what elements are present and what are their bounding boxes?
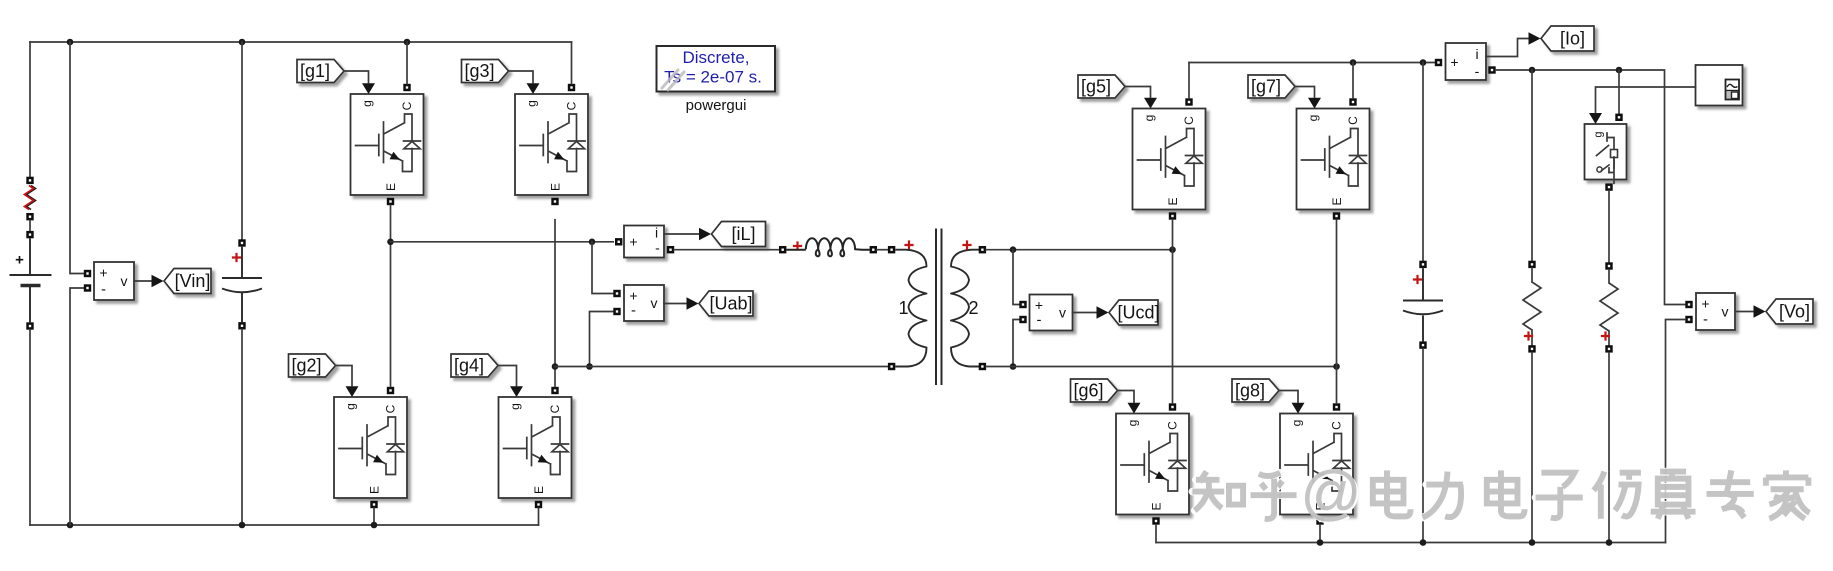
wire E2 to bottom bus <box>373 508 375 525</box>
capacitor Cin top port <box>238 239 245 246</box>
resistor R1 top port <box>1528 261 1535 268</box>
wire to Vin - port <box>70 288 84 525</box>
IGBT U8 (g8) <box>1280 403 1353 525</box>
svg-text:2: 2 <box>968 298 978 318</box>
svg-text:[g7]: [g7] <box>1251 76 1281 96</box>
wire bus to Cin <box>241 42 243 239</box>
svg-text:[g1]: [g1] <box>300 61 330 81</box>
IGBT U1 (g1) <box>351 83 424 205</box>
goto tag [Uab] <box>699 291 753 316</box>
wire Uab - to node B <box>590 312 614 367</box>
arrowhead to [Ucd] <box>1097 306 1109 318</box>
transformer T1 winding 1 <box>895 250 926 367</box>
voltage measurement Vo <box>1696 293 1735 330</box>
polarity + (Cin) <box>232 253 241 262</box>
svg-text:[g6]: [g6] <box>1073 380 1103 400</box>
wire top bus (right bridge) <box>1189 62 1435 64</box>
wire E4 to bottom bus <box>538 508 540 525</box>
wire g5 gate <box>1125 87 1151 98</box>
wire top bus (left bridge) <box>30 41 572 43</box>
IGBT U4 (g4) <box>499 386 572 508</box>
wire node B to transformer <box>555 366 888 368</box>
inductor L1 <box>786 238 869 256</box>
wire R2 to bottom bus <box>1608 353 1610 543</box>
goto tag [iL] <box>712 222 766 247</box>
svg-text:v: v <box>1722 304 1729 320</box>
junction R2 bottom <box>1606 539 1613 546</box>
wire bus to C7 <box>1352 63 1354 99</box>
svg-text:v: v <box>651 295 658 311</box>
wire bottom bus (left bridge) <box>30 524 539 526</box>
resistor Rs bottom port <box>26 213 33 220</box>
IGBT U2 (g2) <box>334 386 407 508</box>
powergui block <box>657 46 776 114</box>
wire iL- to inductor <box>674 249 779 251</box>
node Rs top port <box>26 177 33 184</box>
junction Cin bottom <box>239 522 246 529</box>
wire R1 stubs <box>1531 268 1533 345</box>
signal builder block <box>1696 65 1743 106</box>
wire bus to C3 <box>571 42 573 84</box>
wire leg A (E1-C2) <box>390 205 392 386</box>
voltage measurement Vin <box>94 262 134 300</box>
transformer T1 winding2 - port <box>979 363 986 370</box>
junction C7 tap <box>1350 59 1357 66</box>
polarity + (T1 winding 2) <box>962 240 971 249</box>
wire R2 stubs <box>1608 270 1610 346</box>
wire E8 to bottom bus <box>1319 525 1321 543</box>
wire g6 gate <box>1118 391 1135 403</box>
resistor R1 bottom port <box>1528 345 1535 352</box>
wire R1 to bottom bus <box>1531 353 1533 543</box>
svg-text:1: 1 <box>898 298 908 318</box>
IGBT U6 (g6) <box>1116 403 1189 525</box>
junction Uab- tap <box>586 363 593 370</box>
wire Ucd - to node D <box>1013 320 1019 367</box>
from tag [g7] <box>1248 75 1295 98</box>
svg-text:@: @ <box>1301 459 1362 526</box>
wire to Ucd + port <box>1013 250 1019 305</box>
wire bus to C1 <box>406 42 408 84</box>
IGBT U7 (g7) <box>1297 98 1370 220</box>
svg-text:+: + <box>99 265 107 281</box>
junction node C on leg <box>1169 246 1176 253</box>
wire leg B (E3-C4) <box>554 220 556 387</box>
wire Rs to battery <box>29 220 31 231</box>
wire g8 gate <box>1279 391 1298 403</box>
from tag [g3] <box>462 60 509 83</box>
wire bus to Co <box>1422 63 1424 261</box>
junction Co top tap <box>1420 59 1427 66</box>
junction Uab+ tap <box>589 239 596 246</box>
voltage measurement Ucd <box>1030 295 1073 331</box>
wire to breaker <box>1618 70 1620 114</box>
wire signal builder to gate <box>1596 87 1696 113</box>
resistor R1 <box>1523 282 1541 330</box>
IGBT U3 (g3) <box>515 83 588 205</box>
svg-text:i: i <box>655 225 658 241</box>
junction E8 <box>1317 539 1324 546</box>
wire battery to bottom bus <box>29 330 31 525</box>
wire to Uab + port <box>592 242 613 294</box>
wire iL signal <box>664 233 699 235</box>
svg-text:[Uab]: [Uab] <box>709 293 752 313</box>
IGBT U5 (g5) <box>1133 98 1206 220</box>
svg-text:-: - <box>1037 312 1042 329</box>
capacitor Cin <box>222 247 262 322</box>
wire Vin output <box>134 280 152 282</box>
svg-text:[Io]: [Io] <box>1560 28 1585 48</box>
wire to R1 <box>1531 70 1533 261</box>
arrowhead to [Vo] <box>1754 305 1766 317</box>
arrowhead breaker gate <box>1589 113 1602 124</box>
arrowhead to [Uab] <box>687 297 699 309</box>
arrowhead to [Io] <box>1529 32 1541 44</box>
svg-text:+: + <box>629 234 637 250</box>
from tag [g4] <box>451 354 498 377</box>
wire node C <box>986 249 1172 251</box>
svg-text:powergui: powergui <box>686 97 747 114</box>
goto tag [Vin] <box>164 269 211 294</box>
junction Co bottom <box>1420 539 1427 546</box>
svg-text:-: - <box>1703 311 1708 328</box>
junction node A <box>387 239 394 246</box>
junction node B <box>552 363 559 370</box>
from tag [g8] <box>1232 379 1279 402</box>
svg-text:[g4]: [g4] <box>454 355 484 375</box>
arrowhead to [Vin] <box>152 275 164 287</box>
junction R1 tap <box>1529 67 1536 74</box>
wire node D <box>986 366 1336 368</box>
battery B1 bottom port <box>26 322 33 329</box>
junction Vin+ tap <box>67 39 74 46</box>
junction Vin- tap <box>67 522 74 529</box>
resistor R2 bottom port <box>1605 345 1612 352</box>
transformer T1 winding1 + port <box>888 246 895 253</box>
current measurement iL <box>624 225 664 258</box>
wire Vo- to bottom bus <box>1666 320 1686 543</box>
svg-text:v: v <box>1059 305 1066 321</box>
svg-text:[g3]: [g3] <box>464 61 494 81</box>
svg-text:[g2]: [g2] <box>291 355 321 375</box>
wire Io signal <box>1486 39 1529 57</box>
wire to Vin + port <box>70 42 84 274</box>
polarity + (R1) <box>1524 331 1533 340</box>
wire Vo signal <box>1735 311 1754 313</box>
transformer T1 winding 2 <box>951 250 982 367</box>
junction Ucd+ tap <box>1010 246 1017 253</box>
wire breaker to R2 <box>1608 191 1610 262</box>
svg-text:[g5]: [g5] <box>1081 76 1111 96</box>
wire g2 gate <box>336 366 353 386</box>
svg-text:+: + <box>1701 296 1709 312</box>
inductor L1 right port <box>870 246 877 253</box>
svg-text:i: i <box>1475 46 1478 62</box>
wire Io- to Vo+ <box>1496 70 1686 305</box>
wire L1 to transformer <box>877 249 888 251</box>
goto tag [Ucd] <box>1109 300 1160 325</box>
svg-text:[Ucd]: [Ucd] <box>1117 302 1159 322</box>
junction C1 tap <box>404 39 411 46</box>
from tag [g5] <box>1078 75 1125 98</box>
transformer T1 winding2 + port <box>979 246 986 253</box>
transformer T1 winding1 - port <box>888 363 895 370</box>
watermark <box>1192 459 1809 528</box>
breaker SW1 top port <box>1615 114 1622 121</box>
breaker SW1 <box>1585 124 1627 183</box>
current measurement Io <box>1446 43 1487 80</box>
capacitor Cin bottom port <box>238 322 245 329</box>
junction Ucd- tap <box>1010 363 1017 370</box>
wire Co to bottom bus <box>1422 349 1424 543</box>
junction R1 bottom <box>1529 539 1536 546</box>
resistor R2 <box>1600 283 1618 331</box>
wire g4 gate <box>498 366 517 386</box>
wire node A to iL <box>391 241 614 243</box>
wire g1 gate <box>344 71 369 83</box>
svg-text:+: + <box>15 252 24 269</box>
junction node D on leg <box>1333 363 1340 370</box>
junction Cin top <box>239 39 246 46</box>
svg-text:g: g <box>1593 131 1605 137</box>
wire C5 to top bus <box>1188 63 1190 99</box>
junction E2 <box>371 522 378 529</box>
transformer T1 core <box>936 229 942 386</box>
wire Ucd signal <box>1073 312 1098 314</box>
svg-text:[g8]: [g8] <box>1235 380 1265 400</box>
capacitor Co <box>1403 268 1443 341</box>
wire Uab signal <box>664 303 688 305</box>
wire battery column top <box>29 42 31 177</box>
svg-text:[iL]: [iL] <box>731 224 755 244</box>
polarity + (Co) <box>1413 275 1422 284</box>
wire leg C (E5-C6) <box>1172 220 1174 404</box>
wire E6 to bottom bus <box>1155 525 1157 543</box>
capacitor Co bottom port <box>1419 341 1426 348</box>
svg-text:[Vin]: [Vin] <box>175 271 211 291</box>
junction breaker tap <box>1616 67 1623 74</box>
resistor Rs (source series, red) <box>27 186 36 210</box>
polarity + (T1 winding 1) <box>904 240 913 249</box>
svg-text:+: + <box>1450 54 1458 70</box>
wire g3 gate <box>509 71 534 83</box>
polarity + (R2) <box>1601 331 1610 340</box>
polarity + (L1) <box>793 241 802 250</box>
svg-text:-: - <box>1475 63 1480 79</box>
wire g7 gate <box>1295 87 1315 98</box>
svg-text:v: v <box>121 273 128 289</box>
wire leg D (E7-C8) <box>1336 220 1338 404</box>
svg-text:-: - <box>655 240 660 256</box>
inductor L1 left port <box>779 246 786 253</box>
capacitor Co top port <box>1419 261 1426 268</box>
goto tag [Io] <box>1541 26 1594 51</box>
svg-text:Discrete,: Discrete, <box>682 48 749 67</box>
from tag [g6] <box>1071 379 1118 402</box>
from tag [g1] <box>297 60 344 83</box>
wire Cin to bottom bus <box>241 330 243 526</box>
arrowhead to [iL] <box>699 228 711 240</box>
battery B1 top port <box>26 231 33 238</box>
svg-text:-: - <box>101 281 106 298</box>
svg-text:[Vo]: [Vo] <box>1779 301 1810 321</box>
voltage measurement Uab <box>624 285 664 321</box>
battery B1 <box>10 238 52 322</box>
resistor R2 top port <box>1605 262 1612 269</box>
goto tag [Vo] <box>1766 299 1813 324</box>
from tag [g2] <box>289 354 336 377</box>
svg-text:-: - <box>631 302 636 319</box>
breaker SW1 bottom port <box>1605 183 1612 190</box>
wire bottom bus (output) <box>1156 542 1666 544</box>
